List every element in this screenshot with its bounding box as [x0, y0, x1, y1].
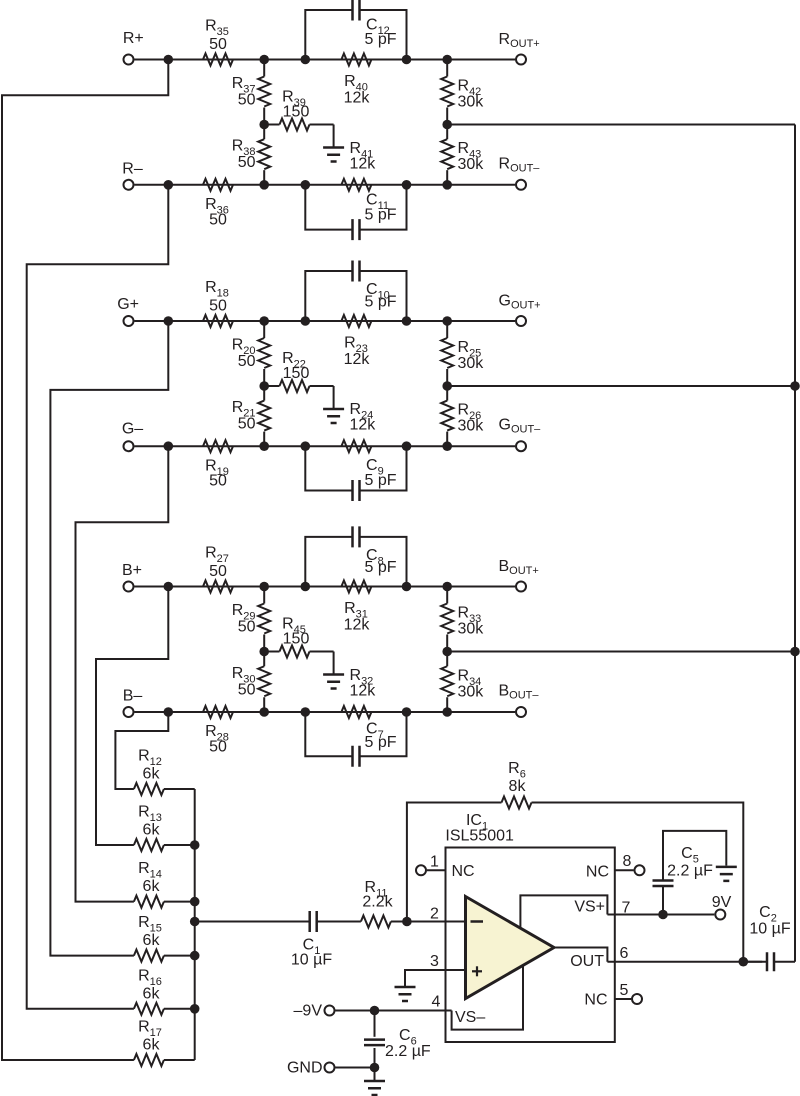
resistor R16 6k	[134, 1003, 164, 1015]
capacitor C5 2.2uF	[662, 887, 664, 915]
svg-text:50: 50	[238, 353, 256, 370]
svg-text:8k: 8k	[509, 778, 527, 795]
resistor R28 50 bottom input	[203, 706, 233, 718]
svg-text:–9V: –9V	[294, 1003, 323, 1020]
junction -9V C6	[370, 1006, 380, 1016]
node summing output wire	[195, 921, 310, 923]
svg-text:B–: B–	[123, 688, 143, 705]
svg-text:12k: 12k	[350, 155, 377, 172]
op-amp non-inverting + symbol	[472, 970, 482, 972]
junction G mid on summing bus	[790, 381, 800, 391]
wire G+ bus to R15	[50, 321, 168, 956]
pin 5 NC stub	[615, 998, 631, 1000]
op-amp IC1 ISL55001 package box	[446, 848, 615, 1043]
svg-text:10 µF: 10 µF	[749, 921, 790, 938]
resistor R11 2.2k	[361, 916, 391, 928]
terminal GND	[325, 1063, 335, 1073]
wire G block mid node to summing bus	[447, 385, 795, 387]
svg-text:12k: 12k	[344, 90, 371, 107]
terminal B+ input	[124, 582, 134, 592]
svg-text:50: 50	[238, 154, 256, 171]
resistor R12 6k	[134, 783, 164, 795]
svg-text:50: 50	[238, 681, 256, 698]
terminal G- input	[124, 441, 134, 451]
svg-text:VS+: VS+	[574, 899, 605, 916]
terminal B- input	[124, 707, 134, 717]
junction dots R bottom row	[164, 180, 174, 190]
capacitor C1 10uF	[310, 911, 317, 932]
svg-text:12k: 12k	[350, 417, 377, 434]
resistor R32 12k bottom feedback	[341, 706, 371, 718]
pin 4 VS- wire	[375, 1010, 452, 1012]
svg-text:G+: G+	[117, 296, 139, 313]
wire GND to C6	[336, 1067, 375, 1069]
terminal G+ input	[124, 316, 134, 326]
svg-text:30k: 30k	[458, 418, 485, 435]
terminal R+ input	[124, 55, 134, 65]
wire R+ bus to R17	[2, 60, 168, 1061]
wire R- row	[135, 184, 516, 186]
wire summing chain right vertical	[194, 789, 196, 1060]
wire -9V to pin4	[336, 1010, 375, 1012]
svg-text:8: 8	[623, 853, 632, 870]
resistor R15 6k	[134, 950, 164, 962]
junction GND node	[370, 1063, 380, 1073]
junction pin7 C5	[658, 910, 668, 920]
svg-text:6k: 6k	[143, 878, 161, 895]
svg-text:12k: 12k	[350, 683, 377, 700]
wire summing bus right edge	[794, 125, 796, 962]
resistor R37 50 vertical upper	[258, 77, 270, 107]
resistor R13 6k	[134, 839, 164, 851]
op-amp triangle U1	[466, 897, 555, 999]
svg-text:ISL55001: ISL55001	[445, 828, 514, 845]
svg-text:5 pF: 5 pF	[365, 294, 397, 311]
svg-text:10 µF: 10 µF	[291, 952, 332, 969]
pin 7 wire to 9V	[607, 914, 714, 916]
junction dots R top row	[164, 55, 174, 65]
capacitor C12 5pF top	[305, 10, 352, 60]
resistor R23 12k top feedback	[341, 315, 371, 327]
wire B+ bus to R13	[96, 587, 168, 846]
VS+ internal connection	[520, 895, 607, 928]
resistor R14 6k	[134, 896, 164, 908]
pin 6 wire OUT	[607, 961, 762, 963]
svg-text:5 pF: 5 pF	[365, 734, 397, 751]
resistor R34 30k lower output	[441, 666, 453, 696]
svg-text:30k: 30k	[458, 683, 485, 700]
resistor R29 50 vertical upper	[258, 604, 270, 634]
terminal GOUT- output	[516, 441, 526, 451]
capacitor C9 5pF bottom	[305, 446, 352, 490]
svg-text:30k: 30k	[458, 156, 485, 173]
svg-text:50: 50	[238, 92, 256, 109]
op-amp inverting - symbol	[471, 920, 484, 923]
svg-text:NC: NC	[586, 864, 609, 881]
svg-text:3: 3	[430, 953, 439, 970]
junction dots G bottom row	[164, 441, 174, 451]
pin 1 NC stub	[416, 865, 426, 875]
terminal ROUT- output	[516, 180, 526, 190]
pin 8 NC stub	[615, 869, 634, 871]
VS- internal connection	[452, 965, 523, 1029]
resistor R41 12k bottom feedback	[341, 179, 371, 191]
wire B- row	[135, 711, 516, 713]
capacitor C2 10uF	[743, 961, 767, 963]
resistor R22 150 to ground	[264, 385, 279, 387]
ground G block	[333, 386, 335, 409]
svg-text:6k: 6k	[143, 985, 161, 1002]
wire column A B block	[263, 587, 265, 604]
svg-text:6k: 6k	[143, 1037, 161, 1054]
resistor R38 50 vertical lower	[258, 139, 270, 169]
svg-text:50: 50	[209, 739, 227, 756]
junction dots G top row	[164, 316, 174, 326]
junction dots B top row	[164, 582, 174, 592]
svg-text:5: 5	[620, 982, 629, 999]
svg-text:30k: 30k	[458, 621, 485, 638]
junction dots summing chain	[190, 840, 200, 850]
capacitor C10 5pF top	[305, 271, 352, 321]
svg-text:NC: NC	[584, 992, 607, 1009]
svg-text:50: 50	[238, 416, 256, 433]
svg-text:5 pF: 5 pF	[365, 207, 397, 224]
svg-text:6: 6	[620, 945, 629, 962]
capacitor C7 5pF bottom	[305, 712, 352, 756]
resistor R33 30k upper output	[441, 604, 453, 634]
svg-text:6k: 6k	[143, 766, 161, 783]
svg-text:50: 50	[209, 36, 227, 53]
ground R block	[333, 125, 335, 148]
svg-text:2.2k: 2.2k	[362, 894, 393, 911]
wire R block mid node to summing bus	[447, 124, 795, 126]
resistor R25 30k upper output	[441, 338, 453, 368]
resistor R30 50 vertical lower	[258, 666, 270, 696]
capacitor C11 5pF bottom	[305, 185, 352, 230]
svg-text:5 pF: 5 pF	[365, 31, 397, 48]
junction dots B mid row	[259, 647, 269, 657]
wire B- bus to R12	[115, 712, 168, 789]
resistor R27 50 top input	[203, 581, 233, 593]
OUT internal connection	[554, 948, 607, 962]
junction dots R mid row	[259, 120, 269, 130]
svg-text:4: 4	[432, 994, 441, 1011]
junction B mid on summing bus	[790, 647, 800, 657]
junction inverting input node	[402, 917, 412, 927]
svg-text:150: 150	[283, 104, 310, 121]
wire column A R block	[263, 60, 265, 77]
svg-text:6k: 6k	[143, 932, 161, 949]
resistor R39 150 to ground	[264, 124, 279, 126]
junction OUT feedback	[739, 957, 749, 967]
resistor R6 8k feedback	[407, 803, 502, 922]
terminal 9V	[715, 910, 725, 920]
wire G- row	[135, 445, 516, 447]
svg-text:150: 150	[283, 631, 310, 648]
junction dots B bottom row	[164, 707, 174, 717]
wire B block mid node to summing bus	[447, 651, 795, 653]
ground B block	[333, 652, 335, 675]
svg-text:5 pF: 5 pF	[365, 559, 397, 576]
svg-text:2: 2	[430, 906, 439, 923]
terminal BOUT+ output	[516, 582, 526, 592]
svg-text:12k: 12k	[344, 351, 371, 368]
resistor R18 50 top input	[203, 315, 233, 327]
ground pin 3	[395, 987, 416, 1001]
svg-text:2.2 µF: 2.2 µF	[385, 1043, 431, 1060]
junction dots G mid row	[259, 381, 269, 391]
svg-text:50: 50	[209, 473, 227, 490]
resistor R35 50 top input	[203, 54, 233, 66]
terminal R- input	[124, 180, 134, 190]
resistor R45 150 to ground	[264, 651, 279, 653]
svg-text:2.2 µF: 2.2 µF	[667, 863, 713, 880]
resistor R20 50 vertical upper	[258, 338, 270, 368]
svg-text:6k: 6k	[143, 822, 161, 839]
wire R+ row	[135, 59, 516, 61]
wire G- bus to R14	[76, 446, 169, 901]
svg-text:50: 50	[209, 211, 227, 228]
svg-text:50: 50	[209, 563, 227, 580]
svg-text:12k: 12k	[344, 617, 371, 634]
svg-text:50: 50	[209, 298, 227, 315]
svg-text:VS–: VS–	[455, 1009, 485, 1026]
svg-text:9V: 9V	[712, 894, 732, 911]
svg-text:30k: 30k	[458, 94, 485, 111]
resistor R26 30k lower output	[441, 401, 453, 431]
capacitor C8 5pF top	[305, 537, 352, 587]
resistor R36 50 bottom input	[203, 179, 233, 191]
svg-text:GND: GND	[287, 1060, 323, 1077]
resistor R43 30k lower output	[441, 139, 453, 169]
wire column A G block	[263, 321, 265, 338]
ground GND symbol	[374, 1068, 376, 1081]
capacitor C6 2.2uF	[374, 1011, 376, 1037]
terminal -9V	[325, 1006, 335, 1016]
ground C5	[716, 867, 737, 881]
wire G+ row	[135, 320, 516, 322]
resistor R31 12k top feedback	[341, 581, 371, 593]
resistor R24 12k bottom feedback	[341, 440, 371, 452]
terminal GOUT+ output	[516, 316, 526, 326]
svg-text:G–: G–	[122, 421, 143, 438]
resistor R40 12k top feedback	[341, 54, 371, 66]
wire R- bus to R16	[27, 185, 169, 1009]
resistor R21 50 vertical lower	[258, 401, 270, 431]
svg-text:5 pF: 5 pF	[365, 472, 397, 489]
resistor R19 50 bottom input	[203, 440, 233, 452]
terminal BOUT- output	[516, 707, 526, 717]
svg-text:OUT: OUT	[570, 953, 604, 970]
svg-text:50: 50	[238, 619, 256, 636]
svg-text:NC: NC	[452, 863, 475, 880]
svg-text:7: 7	[622, 900, 631, 917]
svg-text:30k: 30k	[458, 355, 485, 372]
resistor R42 30k upper output	[441, 77, 453, 107]
svg-text:1: 1	[430, 854, 439, 871]
svg-text:B+: B+	[122, 562, 142, 579]
svg-text:150: 150	[283, 365, 310, 382]
wire B+ row	[135, 586, 516, 588]
svg-text:R–: R–	[122, 161, 143, 178]
terminal ROUT+ output	[516, 55, 526, 65]
resistor R17 6k	[134, 1054, 164, 1066]
svg-text:R+: R+	[123, 30, 144, 47]
pin 3 wire with ground	[405, 970, 466, 987]
